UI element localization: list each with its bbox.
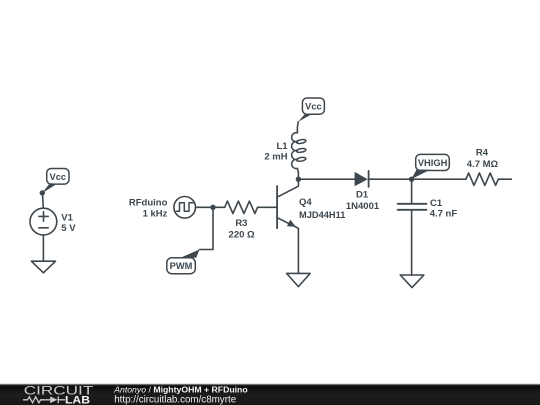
- svg-text:220 Ω: 220 Ω: [229, 229, 255, 240]
- square wave source RFduino: [174, 197, 196, 219]
- svg-text:L1: L1: [277, 141, 289, 152]
- svg-text:1 kHz: 1 kHz: [143, 209, 168, 220]
- svg-text:PWM: PWM: [170, 261, 193, 271]
- svg-text:V1: V1: [61, 212, 73, 223]
- svg-text:C1: C1: [430, 198, 443, 209]
- svg-text:Vcc: Vcc: [305, 102, 322, 112]
- svg-text:R3: R3: [235, 218, 247, 229]
- svg-text:5 V: 5 V: [61, 223, 76, 234]
- ground (V1): [31, 261, 55, 273]
- svg-text:2 mH: 2 mH: [264, 152, 287, 163]
- transistor Q4: [277, 179, 298, 228]
- wire node to C1: [411, 179, 413, 202]
- wire node to R3: [213, 206, 225, 208]
- logo wire with resistor and diode: [23, 396, 65, 403]
- svg-text:Antonyo / MightyOHM + RFDuino: Antonyo / MightyOHM + RFDuino: [113, 384, 248, 394]
- wire L1 to node: [297, 168, 298, 179]
- net flag PWM: [167, 250, 200, 274]
- svg-text:D1: D1: [356, 190, 369, 201]
- net flag VHIGH: [412, 154, 450, 179]
- svg-text:4.7 nF: 4.7 nF: [430, 209, 458, 220]
- svg-text:VHIGH: VHIGH: [418, 158, 448, 168]
- svg-text:RFduino: RFduino: [129, 198, 168, 209]
- resistor R4: [466, 173, 498, 185]
- capacitor C1: [398, 204, 427, 210]
- node junction VHIGH: [409, 177, 414, 182]
- logo diode triangle: [50, 397, 57, 404]
- inductor L1: [292, 133, 307, 169]
- wire V1 bottom: [42, 235, 44, 261]
- svg-text:Q4: Q4: [299, 197, 312, 208]
- net flag Vcc at L1: [298, 98, 324, 122]
- svg-text:LAB: LAB: [65, 395, 90, 405]
- svg-text:Vcc: Vcc: [50, 172, 67, 182]
- svg-text:R4: R4: [476, 148, 489, 159]
- net flag Vcc at V1: [40, 169, 69, 196]
- node junction (PWM net): [210, 205, 215, 210]
- wire R4 output stub: [498, 178, 511, 180]
- wire node to R4: [412, 178, 466, 180]
- svg-text:http://circuitlab.com/c8myrte: http://circuitlab.com/c8myrte: [114, 395, 237, 405]
- wire V1 top: [42, 193, 45, 208]
- node junction (collector / L1 / D1): [296, 177, 301, 182]
- wire node to D1: [298, 178, 354, 180]
- wire D1 to VHIGH node: [369, 178, 412, 180]
- diode D1: [355, 171, 369, 187]
- wire Vcc to L1: [296, 122, 299, 133]
- resistor R3: [225, 201, 258, 213]
- wire node down to PWM flag: [200, 207, 214, 249]
- wire Q4 emitter to ground: [297, 228, 299, 273]
- ground (C1): [400, 275, 424, 288]
- svg-text:MJD44H11: MJD44H11: [299, 210, 346, 221]
- wire source to node: [196, 206, 214, 208]
- svg-text:4.7 MΩ: 4.7 MΩ: [467, 159, 499, 170]
- voltage source V1: [30, 208, 57, 235]
- wire C1 to ground: [411, 211, 413, 275]
- wire R3 to Q4 base: [258, 206, 277, 208]
- svg-text:1N4001: 1N4001: [346, 201, 380, 212]
- ground (Q4 emitter): [287, 273, 311, 286]
